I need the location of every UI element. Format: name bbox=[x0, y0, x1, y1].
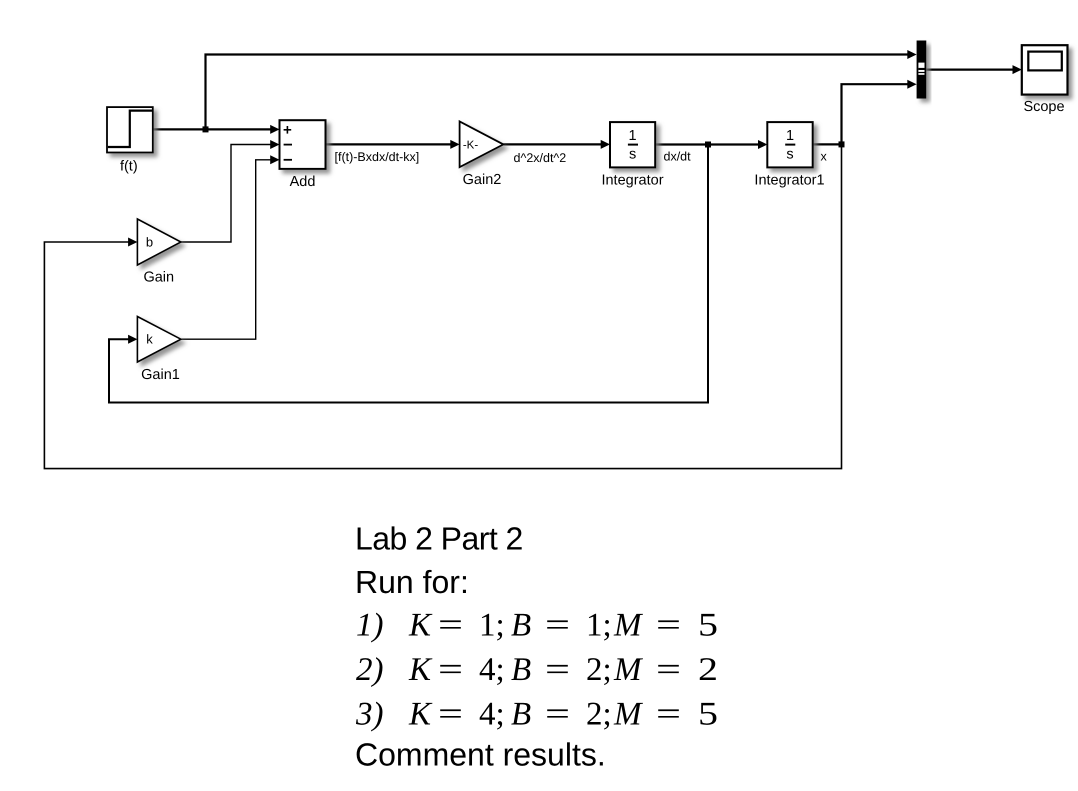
svg-text:Scope: Scope bbox=[1023, 99, 1064, 115]
svg-text:3): 3) bbox=[355, 697, 384, 733]
gain block Gain2 bbox=[460, 121, 504, 167]
gain block Gain1 value k bbox=[137, 317, 181, 363]
svg-text:=: = bbox=[438, 697, 463, 733]
svg-text:5: 5 bbox=[698, 608, 718, 644]
wire Gain2 output to Integrator input, net d^2x/dt^2 bbox=[503, 140, 610, 149]
step source block f(t) bbox=[107, 107, 153, 152]
svg-text:1: 1 bbox=[629, 128, 637, 144]
svg-text:Integrator1: Integrator1 bbox=[754, 172, 824, 188]
svg-text:1;: 1; bbox=[479, 608, 505, 644]
svg-text:K: K bbox=[408, 697, 433, 733]
wire inner feedback dx/dt down and left to Gain1 input bbox=[109, 145, 708, 403]
sum block Add bbox=[280, 120, 326, 169]
svg-text:=: = bbox=[656, 697, 681, 733]
plus sign input 1 bbox=[284, 126, 292, 134]
wire branch up from f(t) junction to Mux input 1 bbox=[206, 50, 917, 129]
svg-text:=: = bbox=[545, 652, 570, 688]
junction node dx/dt branch bbox=[705, 142, 711, 148]
1/s fraction of Integrator bbox=[628, 128, 638, 162]
svg-text:f(t): f(t) bbox=[120, 159, 138, 175]
wire x up to Mux input 2 bbox=[842, 80, 917, 145]
svg-text:M: M bbox=[613, 652, 643, 688]
note line 5: 3) K = 4; B = 2; M = 5 bbox=[355, 697, 718, 733]
svg-text:B: B bbox=[511, 697, 531, 733]
svg-text:=: = bbox=[656, 608, 681, 644]
svg-text:2;: 2; bbox=[586, 697, 612, 733]
integrator block Integrator bbox=[610, 122, 655, 167]
svg-text:b: b bbox=[146, 235, 153, 250]
svg-text:5: 5 bbox=[698, 697, 718, 733]
svg-text:1): 1) bbox=[356, 608, 384, 644]
svg-text:d^2x/dt^2: d^2x/dt^2 bbox=[514, 151, 567, 165]
svg-text:x: x bbox=[821, 149, 828, 163]
integrator block Integrator1 bbox=[767, 122, 812, 167]
gain block Gain value b bbox=[137, 219, 181, 265]
mux block bbox=[917, 41, 927, 99]
svg-text:Gain: Gain bbox=[143, 269, 174, 285]
svg-text:=: = bbox=[656, 652, 681, 688]
svg-text:1: 1 bbox=[786, 128, 794, 144]
svg-text:2): 2) bbox=[356, 652, 384, 688]
svg-text:k: k bbox=[146, 332, 153, 347]
svg-text:Gain1: Gain1 bbox=[141, 367, 180, 383]
svg-text:Add: Add bbox=[290, 174, 316, 190]
wire Integrator output to Integrator1 input, net dx/dt bbox=[655, 140, 767, 149]
junction node x bbox=[839, 141, 845, 147]
wire Gain output up to Add input 2 bbox=[181, 140, 280, 242]
svg-text:Lab 2 Part 2: Lab 2 Part 2 bbox=[355, 521, 523, 557]
minus sign input 2 bbox=[284, 144, 292, 146]
svg-text:s: s bbox=[786, 146, 793, 162]
note line 4: 2) K = 4; B = 2; M = 2 bbox=[356, 652, 718, 688]
svg-text:Comment results.: Comment results. bbox=[355, 737, 606, 773]
scope block Scope bbox=[1022, 45, 1068, 94]
svg-text:2: 2 bbox=[698, 652, 718, 688]
svg-text:B: B bbox=[511, 652, 531, 688]
wire Gain1 output up to Add input 3 bbox=[181, 155, 280, 339]
svg-text:=: = bbox=[545, 608, 570, 644]
svg-text:=: = bbox=[438, 652, 463, 688]
svg-text:K: K bbox=[408, 608, 433, 644]
wire f(t) output to Add input 1 bbox=[153, 125, 280, 134]
svg-text:4;: 4; bbox=[479, 652, 505, 688]
1/s fraction of Integrator1 bbox=[785, 128, 795, 162]
svg-text:Run for:: Run for: bbox=[355, 564, 469, 600]
wire outer feedback x down, left and up to Gain input bbox=[44, 144, 841, 468]
junction node at f(t) output branch bbox=[203, 126, 209, 132]
svg-text:K: K bbox=[408, 652, 433, 688]
wire Add output to Gain2 input, net [f(t)-Bxdx/dt-kx] bbox=[326, 140, 460, 149]
svg-text:=: = bbox=[438, 608, 463, 644]
svg-text:2;: 2; bbox=[586, 652, 612, 688]
svg-text:dx/dt: dx/dt bbox=[664, 149, 692, 163]
svg-text:s: s bbox=[629, 146, 636, 162]
svg-text:4;: 4; bbox=[479, 697, 505, 733]
svg-text:M: M bbox=[613, 608, 643, 644]
svg-text:B: B bbox=[511, 608, 531, 644]
wire Integrator1 output to junction x bbox=[813, 143, 842, 145]
svg-text:[f(t)-Bxdx/dt-kx]: [f(t)-Bxdx/dt-kx] bbox=[335, 150, 420, 164]
svg-text:=: = bbox=[545, 697, 570, 733]
svg-text:1;: 1; bbox=[586, 608, 612, 644]
svg-text:-K-: -K- bbox=[463, 140, 479, 152]
minus sign input 3 bbox=[284, 159, 292, 161]
svg-text:M: M bbox=[613, 697, 643, 733]
note line 3: 1) K = 1; B = 1; M = 5 bbox=[356, 608, 718, 644]
svg-text:Gain2: Gain2 bbox=[463, 172, 502, 188]
svg-text:Integrator: Integrator bbox=[601, 172, 663, 188]
wire Mux output to Scope input bbox=[926, 65, 1022, 74]
mux icon notch bbox=[918, 63, 924, 75]
